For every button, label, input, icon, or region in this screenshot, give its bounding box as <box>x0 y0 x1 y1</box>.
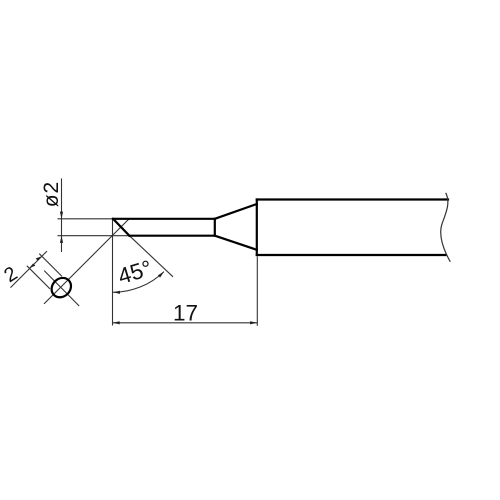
svg-text:ø2: ø2 <box>40 181 63 208</box>
svg-text:17: 17 <box>173 301 198 326</box>
